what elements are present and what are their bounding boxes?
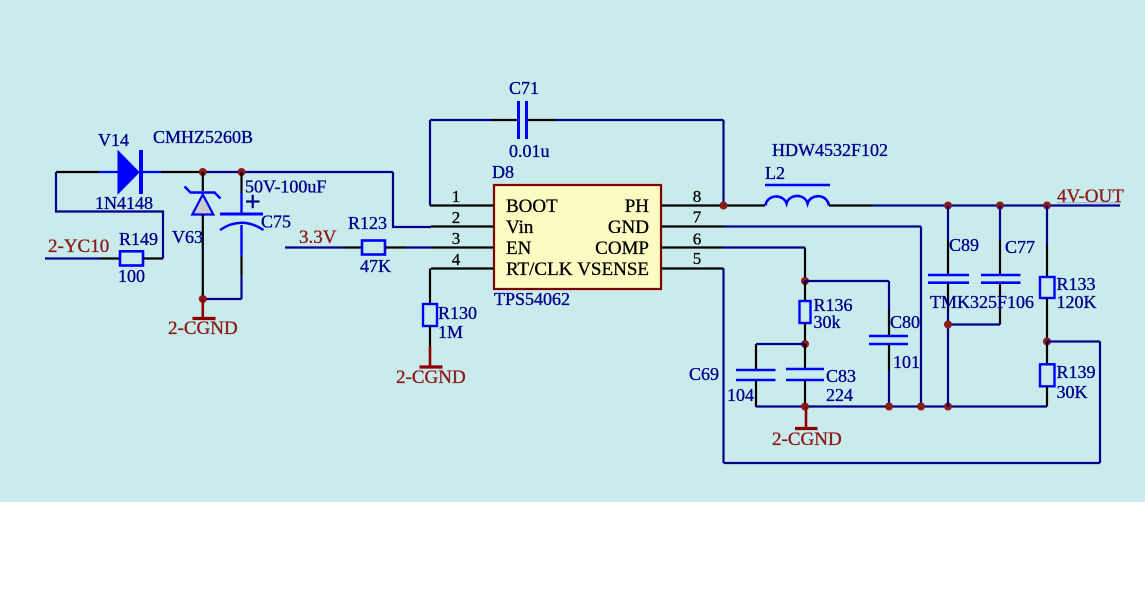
junction node 4V/R133 xyxy=(1043,202,1051,210)
svg-text:3: 3 xyxy=(452,229,461,248)
wire: zener top lead xyxy=(202,172,204,191)
svg-text:1N4148: 1N4148 xyxy=(95,193,153,213)
svg-text:100: 100 xyxy=(118,266,145,286)
wire: R130 bottom lead xyxy=(429,326,431,346)
svg-text:VSENSE: VSENSE xyxy=(577,259,649,280)
wire: 2-YC10 port lead xyxy=(45,257,100,259)
capacitor C77 xyxy=(981,275,1021,283)
svg-text:47K: 47K xyxy=(360,256,391,276)
wire: PH pin stub xyxy=(661,204,765,206)
svg-text:BOOT: BOOT xyxy=(506,196,558,217)
svg-text:1: 1 xyxy=(452,187,461,206)
svg-text:GND: GND xyxy=(608,217,649,238)
wire: C69 link xyxy=(756,343,805,345)
wire: C77 top lead xyxy=(999,206,1001,241)
wire: 4V-OUT port underline xyxy=(1057,202,1121,204)
wire: R136 top lead xyxy=(804,281,806,301)
op-amp U1 : IC D8 TPS54062 body xyxy=(494,185,661,289)
svg-text:C80: C80 xyxy=(890,312,920,332)
svg-text:2: 2 xyxy=(452,208,461,227)
wire: RT/CLK pin stub xyxy=(431,267,494,269)
wire: R123 left lead xyxy=(343,246,362,248)
svg-text:C69: C69 xyxy=(689,364,719,384)
wire: bottom ground rail xyxy=(756,405,1047,407)
svg-text:C71: C71 xyxy=(509,78,539,98)
svg-text:R123: R123 xyxy=(348,213,387,233)
svg-text:50V-100uF: 50V-100uF xyxy=(245,177,326,197)
wire: C89 bottom lead xyxy=(947,283,949,312)
wire: C75 top lead xyxy=(240,172,242,193)
wire: C80 bottom lead xyxy=(888,344,890,371)
svg-text:3.3V: 3.3V xyxy=(299,227,337,248)
capacitor C75 (polarized) xyxy=(220,193,264,256)
label plus sign xyxy=(246,195,260,208)
svg-text:4: 4 xyxy=(452,250,461,269)
wire: top-left to diode xyxy=(56,171,99,173)
resistor R149 xyxy=(100,251,163,265)
resistor R123 xyxy=(362,241,385,255)
capacitor C71 xyxy=(519,101,527,139)
svg-text:TPS54062: TPS54062 xyxy=(494,289,570,309)
junction node rail/GND xyxy=(917,403,925,411)
wire: C77 to C89 join xyxy=(948,323,1000,325)
svg-text:RT/CLK: RT/CLK xyxy=(506,259,573,280)
wire: feedback bottom xyxy=(724,462,1101,464)
svg-text:R149: R149 xyxy=(119,229,158,249)
wire: COMP pin stub xyxy=(661,246,723,248)
wire: zener bottom lead xyxy=(202,215,204,300)
wire: R139 bottom lead xyxy=(1046,386,1048,406)
ground 2-CGND right xyxy=(795,407,818,429)
svg-text:2-CGND: 2-CGND xyxy=(772,429,842,450)
wire: GND net horizontal xyxy=(724,225,922,227)
svg-text:R130: R130 xyxy=(438,303,477,323)
svg-text:C89: C89 xyxy=(949,235,979,255)
capacitor C69 xyxy=(736,370,776,380)
ground 2-CGND left xyxy=(193,299,216,319)
svg-text:1M: 1M xyxy=(438,322,463,342)
wire: C77 bottom lead xyxy=(999,283,1001,325)
wire: main input rail xyxy=(203,171,393,173)
ground 2-CGND R130 xyxy=(420,346,443,367)
wire: GND net drop xyxy=(920,227,922,407)
svg-text:R139: R139 xyxy=(1057,362,1096,382)
wire: L2 right black xyxy=(829,204,872,206)
junction node input/C75 xyxy=(238,168,246,176)
wire: feedback top xyxy=(1047,340,1100,342)
wire: R136 bottom lead xyxy=(804,323,806,344)
svg-text:2-YC10: 2-YC10 xyxy=(48,236,109,257)
svg-text:V63: V63 xyxy=(172,227,203,247)
svg-text:C83: C83 xyxy=(826,366,856,386)
wire: feedback right drop xyxy=(1099,342,1101,464)
wire: C75 bottom lead xyxy=(240,256,242,276)
wire: C80 top lead xyxy=(888,281,890,310)
svg-text:4V-OUT: 4V-OUT xyxy=(1057,186,1124,207)
svg-text:PH: PH xyxy=(625,196,650,217)
junction node divider xyxy=(1043,338,1051,346)
wire: 3.3V net xyxy=(285,246,343,248)
wire: COMP drop xyxy=(804,248,806,282)
wire: Vin pin stub xyxy=(431,225,494,227)
junction node rail/C83 xyxy=(801,403,809,411)
wire: R149 to diode anode loop xyxy=(56,172,163,259)
svg-text:C75: C75 xyxy=(261,212,291,232)
resistor R139 xyxy=(1040,364,1055,386)
svg-text:R133: R133 xyxy=(1057,274,1096,294)
resistor R136 xyxy=(800,301,811,323)
junction node C89/C77 xyxy=(944,321,952,329)
wire: COMP net xyxy=(723,246,805,248)
svg-text:8: 8 xyxy=(693,187,702,206)
wire: R133 bottom lead xyxy=(1046,298,1048,342)
wire: RT/CLK drop xyxy=(429,269,431,305)
wire: COMP to C80 xyxy=(805,280,889,282)
svg-text:HDW4532F102: HDW4532F102 xyxy=(772,140,888,160)
junction node 4V/C77 xyxy=(996,202,1004,210)
svg-text:2-CGND: 2-CGND xyxy=(168,318,238,339)
svg-text:6: 6 xyxy=(693,230,702,249)
junction node PH/C71 xyxy=(720,202,728,210)
wire: drop to Vin xyxy=(393,172,431,227)
resistor R133 xyxy=(1040,277,1055,298)
junction node 4V/C89 xyxy=(944,202,952,210)
diode V14 xyxy=(99,150,161,194)
svg-text:101: 101 xyxy=(893,352,920,372)
svg-text:2-CGND: 2-CGND xyxy=(396,367,466,388)
wire: GND pin stub xyxy=(661,225,724,227)
wire: C83 bottom lead xyxy=(804,380,806,407)
svg-text:C77: C77 xyxy=(1005,237,1035,257)
wire: C71 right xyxy=(555,119,724,121)
wire: R123 right lead xyxy=(385,246,406,248)
svg-text:5: 5 xyxy=(693,249,702,268)
junction node ground left xyxy=(199,295,207,303)
resistor R130 xyxy=(423,304,437,326)
wire: C69 top lead xyxy=(755,344,757,369)
capacitor C89 xyxy=(928,275,969,283)
wire: BOOT riser xyxy=(429,120,431,206)
svg-text:120K: 120K xyxy=(1057,292,1097,312)
wire: C89 top lead xyxy=(947,206,949,241)
svg-text:CMHZ5260B: CMHZ5260B xyxy=(153,127,253,147)
svg-text:30k: 30k xyxy=(814,312,841,332)
wire: C71 right black xyxy=(528,119,555,121)
svg-text:0.01u: 0.01u xyxy=(509,141,550,161)
junction node R136/C83 xyxy=(801,340,809,348)
capacitor C80 xyxy=(869,336,908,344)
svg-text:30K: 30K xyxy=(1057,382,1088,402)
wire: R139 top lead xyxy=(1046,342,1048,365)
wire: R133 top lead xyxy=(1046,206,1048,246)
svg-text:V14: V14 xyxy=(98,130,129,150)
svg-text:224: 224 xyxy=(826,385,853,405)
wire: R123 to EN xyxy=(406,246,431,248)
inductor L2 xyxy=(765,185,830,206)
svg-text:7: 7 xyxy=(693,208,702,227)
wire: C69 bottom lead xyxy=(755,380,757,407)
wire: C71 left xyxy=(430,119,492,121)
wire: C71 left black xyxy=(492,119,517,121)
wire: C83 top lead xyxy=(804,344,806,369)
wire: VSENSE pin stub xyxy=(661,267,724,269)
capacitor C83 xyxy=(786,369,824,380)
zener diode V63 xyxy=(185,187,221,215)
wire: C71 to PH xyxy=(722,120,724,206)
svg-text:Vin: Vin xyxy=(506,217,534,238)
svg-text:L2: L2 xyxy=(765,163,785,183)
junction node COMP/R136 xyxy=(801,277,809,285)
wire: zener/C75 bottom join xyxy=(203,298,242,300)
wire: diode cathode to node xyxy=(161,171,203,173)
wire: 4V output rail xyxy=(872,204,1120,206)
svg-text:104: 104 xyxy=(727,385,754,405)
junction node rail/C89 xyxy=(944,403,952,411)
junction node input/zener xyxy=(199,168,207,176)
svg-text:EN: EN xyxy=(506,238,532,259)
svg-text:D8: D8 xyxy=(492,162,514,182)
svg-text:TMK325F106: TMK325F106 xyxy=(930,292,1034,312)
junction node rail/C80 xyxy=(885,403,893,411)
wire: EN pin stub xyxy=(431,246,494,248)
wire: BOOT pin stub xyxy=(430,204,494,206)
svg-text:COMP: COMP xyxy=(595,238,649,259)
wire: VSENSE drop xyxy=(722,269,724,464)
